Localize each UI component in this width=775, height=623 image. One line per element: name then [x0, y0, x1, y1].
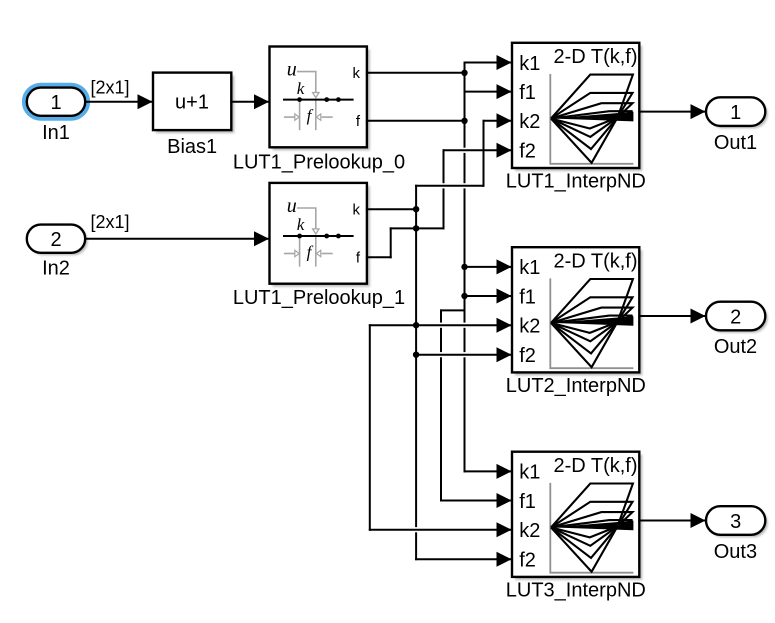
svg-text:LUT3_InterpND: LUT3_InterpND — [506, 579, 646, 601]
svg-text:k: k — [353, 202, 361, 219]
svg-text:k: k — [297, 79, 305, 98]
svg-text:k2: k2 — [519, 111, 540, 133]
svg-text:f1: f1 — [519, 286, 536, 308]
svg-text:2-D T(k,f): 2-D T(k,f) — [553, 455, 637, 477]
svg-text:LUT2_InterpND: LUT2_InterpND — [506, 375, 646, 397]
svg-text:Out3: Out3 — [714, 541, 757, 563]
svg-text:2-D T(k,f): 2-D T(k,f) — [553, 250, 637, 272]
svg-text:k1: k1 — [519, 462, 540, 484]
svg-text:2: 2 — [50, 229, 61, 251]
svg-text:u+1: u+1 — [175, 92, 209, 114]
svg-text:k: k — [353, 65, 361, 82]
svg-text:[2x1]: [2x1] — [90, 77, 129, 97]
svg-text:1: 1 — [730, 102, 741, 124]
svg-text:In1: In1 — [42, 122, 70, 144]
svg-text:f1: f1 — [519, 491, 536, 513]
svg-text:f2: f2 — [519, 141, 536, 163]
svg-text:2-D T(k,f): 2-D T(k,f) — [553, 46, 637, 68]
svg-text:f1: f1 — [519, 82, 536, 104]
svg-text:k2: k2 — [519, 520, 540, 542]
svg-text:k1: k1 — [519, 257, 540, 279]
svg-text:[2x1]: [2x1] — [90, 212, 129, 232]
svg-text:Out1: Out1 — [714, 132, 757, 154]
svg-text:k2: k2 — [519, 316, 540, 338]
svg-text:LUT1_Prelookup_0: LUT1_Prelookup_0 — [233, 151, 405, 173]
svg-text:1: 1 — [50, 92, 61, 114]
svg-text:LUT1_Prelookup_1: LUT1_Prelookup_1 — [233, 287, 405, 309]
svg-text:LUT1_InterpND: LUT1_InterpND — [506, 170, 646, 192]
svg-text:k: k — [297, 215, 305, 234]
svg-text:Out2: Out2 — [714, 336, 757, 358]
svg-text:Bias1: Bias1 — [167, 136, 217, 158]
svg-text:2: 2 — [730, 306, 741, 328]
svg-text:u: u — [287, 59, 297, 81]
svg-text:f2: f2 — [519, 345, 536, 367]
svg-text:3: 3 — [730, 511, 741, 533]
svg-text:u: u — [287, 195, 297, 217]
svg-text:f2: f2 — [519, 550, 536, 572]
svg-text:In2: In2 — [42, 258, 70, 280]
svg-text:k1: k1 — [519, 53, 540, 75]
